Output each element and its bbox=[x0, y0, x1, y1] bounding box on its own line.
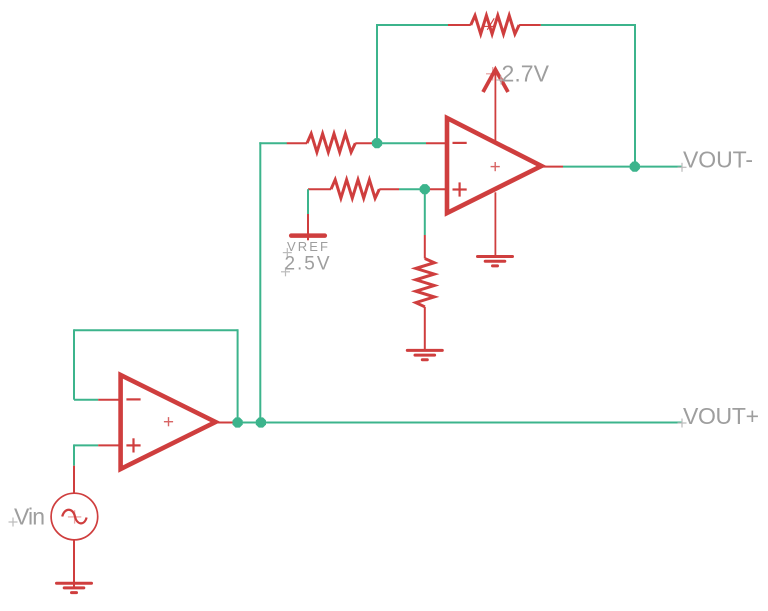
node D lower feedback junction bbox=[233, 417, 243, 427]
anchor cross VOUT+ bbox=[678, 419, 687, 428]
resistor R1 feedback bbox=[448, 16, 541, 35]
wire: red stub minus input U1 bbox=[98, 399, 121, 401]
wire: red stub into minus input bbox=[426, 142, 448, 144]
anchor cross VOUT- bbox=[678, 163, 687, 172]
wire: inverting input from long vertical bbox=[259, 142, 287, 144]
op-amp U1 bbox=[121, 375, 216, 469]
node E long vertical junction bbox=[256, 417, 266, 427]
wire: top feedback left vertical bbox=[376, 24, 378, 143]
ground under R4 bbox=[407, 350, 442, 359]
ground under V1 bbox=[57, 583, 92, 592]
wire: output red stub U1 bbox=[216, 422, 241, 424]
wire: node down green bbox=[424, 189, 426, 235]
resistor R4 to ground bbox=[416, 235, 435, 350]
wire: lower feedback right vertical bbox=[237, 329, 239, 422]
wire: top feedback left horizontal bbox=[377, 24, 449, 26]
wire: top feedback right vertical bbox=[634, 24, 636, 167]
wire: node to op-amp minus bbox=[377, 142, 426, 144]
wire: output green to node bbox=[563, 166, 635, 168]
wire: supply to negative rail ground bbox=[494, 192, 496, 256]
node B non-inverting junction bbox=[420, 184, 430, 194]
resistor R2 inverting input bbox=[287, 134, 378, 153]
svg-text:2.5V: 2.5V bbox=[285, 254, 330, 275]
resistor R3 non-inverting input bbox=[308, 180, 399, 199]
svg-text:VOUT-: VOUT- bbox=[683, 146, 753, 172]
wire: red stub into plus input bbox=[425, 188, 448, 190]
source V1 Vin bbox=[51, 466, 98, 587]
wire: lower feedback left vertical bbox=[73, 329, 75, 399]
wire: long vertical VOUT+ to R2 bbox=[259, 142, 261, 422]
node C output VOUT- bbox=[630, 162, 640, 172]
wire: red stub plus input U1 bbox=[98, 444, 121, 446]
power VREF 2.5V symbol bbox=[291, 214, 325, 240]
node A inverting junction bbox=[372, 138, 382, 148]
wire: output red stub bbox=[541, 166, 563, 168]
svg-text:2.7V: 2.7V bbox=[502, 60, 550, 86]
anchor cross Vin bbox=[9, 518, 18, 527]
op-amp U2 bbox=[447, 118, 541, 213]
svg-text:VOUT+: VOUT+ bbox=[683, 403, 759, 429]
svg-text:Vin: Vin bbox=[14, 504, 45, 530]
wire: top feedback right horizontal bbox=[541, 24, 635, 26]
wire: output green to VOUT+ bbox=[235, 422, 682, 424]
svg-text:VREF: VREF bbox=[287, 239, 328, 254]
wire: plus input vertical green bbox=[73, 444, 75, 465]
wire: VREF green vertical bbox=[307, 189, 309, 214]
wire: plus input green U1 bbox=[74, 444, 98, 446]
wire: lower feedback top horizontal bbox=[74, 329, 238, 331]
anchor cross VREF bbox=[281, 248, 292, 276]
wire: lower feedback to minus bbox=[74, 399, 98, 401]
wire: R3 to node bbox=[399, 188, 425, 190]
power +2.7V supply arrow bbox=[483, 67, 508, 143]
label 2.7V bbox=[497, 60, 550, 86]
wire: node to VOUT- bbox=[635, 166, 682, 168]
ground under op-amp U2 bbox=[478, 257, 513, 266]
